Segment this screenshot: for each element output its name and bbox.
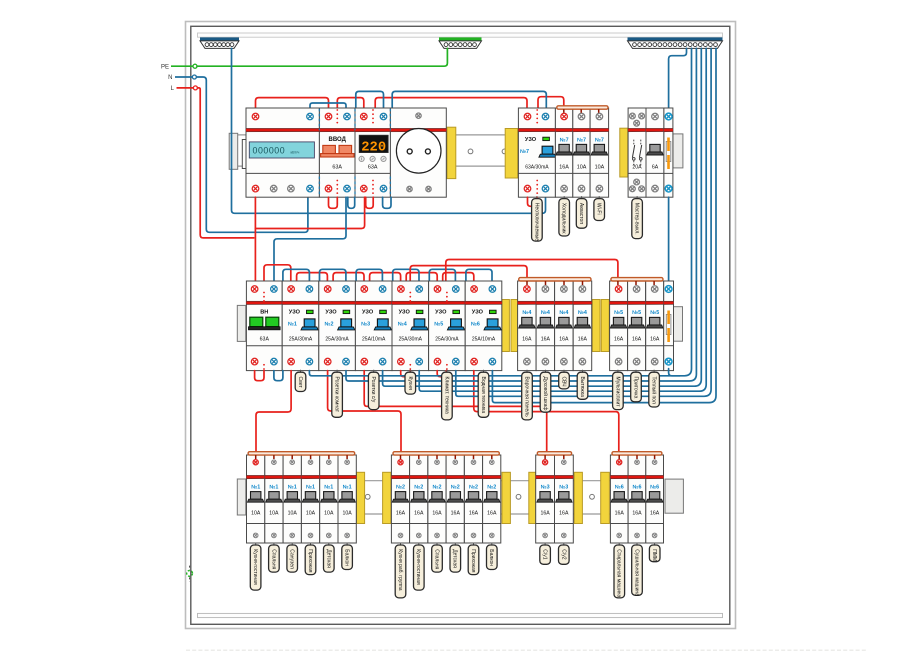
svg-text:№3: №3: [541, 484, 550, 490]
svg-text:63А: 63А: [368, 165, 378, 171]
wire main breaker N-out to switch VN N: [274, 197, 346, 286]
cable tag Балкон: [491, 543, 493, 546]
wire jumper L meter-to-main-breaker (top): [256, 98, 329, 108]
cable tag Кухня-гостиная: [418, 543, 420, 546]
svg-text:Мастер-выкл.: Мастер-выкл.: [634, 203, 640, 235]
wire loop N below monitor: [383, 197, 391, 208]
breaker QF2-6 №2 16А: [483, 455, 501, 543]
wire master switch N down through rows: [668, 197, 670, 281]
RCD U2 25А/30mА: [319, 281, 356, 371]
wire jumper L main-breaker-to-monitor (top): [337, 98, 364, 108]
wire jumper L RCD U1 to breaker N7-1 (top): [538, 97, 564, 108]
RCD U1 25А/30mА: [282, 281, 319, 371]
cable tag Балкон: [346, 543, 348, 546]
cable tag Прихожая: [473, 543, 475, 546]
wire L input down left side: [197, 88, 253, 238]
svg-text:10А: 10А: [251, 511, 261, 517]
DIN rail row 1: [229, 134, 248, 136]
svg-text:16А: 16А: [615, 511, 625, 517]
cable tag Неотключаемые: [536, 196, 538, 199]
svg-text:УЗО: УЗО: [525, 137, 537, 143]
svg-text:63А/30mА: 63А/30mА: [525, 165, 549, 171]
wire loop L below RCD5: [437, 371, 446, 377]
breaker QF4-3 N4 16A: [555, 281, 574, 371]
breaker QF4-1 N4 16A: [518, 281, 537, 371]
wire master switch N joins bundle: [669, 369, 680, 376]
DIN end stops row3: [357, 472, 365, 523]
svg-text:Водная техника: Водная техника: [480, 377, 486, 414]
RCD U3 25А/10mА: [355, 281, 392, 371]
svg-text:Санузел: Санузел: [289, 549, 295, 569]
svg-text:25А/30mА: 25А/30mА: [399, 336, 423, 342]
svg-text:УЗО: УЗО: [289, 310, 301, 316]
svg-text:Детская: Детская: [452, 549, 458, 568]
svg-text:10А: 10А: [595, 165, 605, 171]
wire N busbar drop to N bus line: [232, 48, 546, 213]
N indicator dashed columns row1: [318, 109, 320, 130]
contactor KM1 master switch 20A: [628, 108, 646, 197]
svg-text:Розетки с/у: Розетки с/у: [370, 377, 376, 403]
meter LCD display: [249, 142, 314, 158]
wire jumper chain N RCD2-RCD3: [356, 269, 382, 281]
cable tag Приточка: [635, 370, 637, 373]
svg-text:№4: №4: [522, 310, 531, 316]
svg-text:Кухня-гостиная: Кухня-гостиная: [415, 549, 421, 585]
svg-text:16А: 16А: [540, 511, 550, 517]
svg-text:№1: №1: [343, 484, 352, 490]
cable tag Прихожая: [310, 543, 312, 546]
RCD U1 63A/30mA (non-switched group): [518, 108, 555, 197]
cable tag С/у1: [544, 543, 546, 546]
DIN end stop (row1 before contactor): [620, 128, 628, 177]
svg-text:000000: 000000: [253, 145, 286, 155]
svg-text:Балкон: Балкон: [488, 549, 494, 566]
cable tag Розетки с/у: [373, 370, 375, 373]
switch VN 63A: [246, 281, 282, 371]
breaker QF3-1 №3 16А: [536, 455, 555, 543]
svg-text:25А/10mА: 25А/10mА: [362, 336, 386, 342]
wire PE input to PE busbar: [197, 48, 447, 66]
svg-text:16А: 16А: [578, 336, 588, 342]
svg-text:Духовой шкаф: Духовой шкаф: [542, 377, 549, 411]
svg-text:СВЧ: СВЧ: [561, 377, 567, 387]
cable tag Спальня: [273, 543, 275, 546]
DIN end stop (row1 before RCD group): [505, 129, 518, 179]
wire monitor L-out to meter L line: [255, 197, 364, 228]
wire feed L RCD6 to group N6: [474, 371, 619, 453]
ground symbol on enclosure: [187, 571, 193, 577]
breaker QF2-1 №2 16А: [391, 455, 409, 543]
wire feed L RCD2 to group N2: [328, 371, 401, 453]
svg-text:Кухня-гостиная: Кухня-гостиная: [252, 549, 258, 585]
svg-text:16А: 16А: [632, 336, 642, 342]
bottom cable duct: [198, 613, 723, 617]
svg-text:№1: №1: [288, 322, 297, 328]
breaker QF2-3 №2 16А: [428, 455, 446, 543]
svg-text:№2: №2: [487, 484, 496, 490]
wire loop L below monitor: [366, 197, 374, 208]
comb busbar over group №6: [612, 452, 662, 455]
svg-text:6А: 6А: [652, 165, 659, 171]
svg-text:ВВОД: ВВОД: [329, 137, 347, 143]
cable tag Аквастоп: [581, 196, 583, 199]
breaker QF6-2 №6 16А: [628, 455, 646, 543]
wire N input down left side: [196, 77, 308, 232]
wire feed L RCD3 to group N3: [364, 371, 547, 453]
wire jumper L VN to RCD1 (top): [264, 265, 291, 282]
svg-text:Климат. техника: Климат. техника: [443, 377, 449, 415]
svg-text:220: 220: [361, 141, 386, 156]
svg-text:Вытяжка: Вытяжка: [579, 377, 585, 398]
cable tag Санузел: [291, 543, 293, 546]
top mounting strip: [198, 33, 723, 37]
svg-text:N: N: [168, 75, 172, 81]
cable tag Wi-Fi: [598, 196, 600, 199]
wire loop N below main breaker: [348, 197, 355, 208]
svg-text:63А: 63А: [260, 336, 270, 342]
svg-text:№2: №2: [469, 484, 478, 490]
svg-text:№4: №4: [398, 322, 407, 328]
svg-text:№7: №7: [560, 137, 569, 143]
svg-text:Кухня раб. группа: Кухня раб. группа: [397, 549, 403, 590]
svg-text:Аквастоп: Аквастоп: [578, 203, 584, 224]
svg-text:ПММ: ПММ: [651, 549, 657, 561]
svg-text:Приточка: Приточка: [633, 377, 639, 399]
wire N RCD6 to right N busbar (bundle line 6): [492, 48, 716, 402]
switch-disconnector module (orange) row1: [664, 108, 673, 197]
svg-text:С/у1: С/у1: [542, 549, 548, 560]
breaker QF7-3 N7 10А: [590, 108, 609, 197]
svg-text:№1: №1: [251, 484, 260, 490]
cable tag Детская: [328, 543, 330, 546]
wire N feed from right busbar to master switch: [669, 48, 687, 108]
svg-text:№5: №5: [614, 310, 623, 316]
wire jumper chain L RCD3-RCD4: [370, 273, 401, 282]
breaker QF1-3 №1 10А: [283, 455, 301, 543]
wire jumper chain N RCD5-RCD6: [466, 269, 492, 281]
svg-text:№1: №1: [269, 484, 278, 490]
wire loop L below VN: [255, 371, 264, 381]
comb busbar over breakers N7: [557, 106, 608, 109]
svg-text:№2: №2: [324, 322, 333, 328]
wire N RCD1 to right N busbar (bundle line 1): [309, 48, 691, 375]
svg-text:Мультисплит: Мультисплит: [614, 377, 620, 408]
svg-text:Варочная панель: Варочная панель: [524, 377, 530, 418]
breaker QF8 6A: [646, 108, 664, 197]
svg-text:Теплый пол: Теплый пол: [651, 377, 658, 404]
svg-text:25А/30mА: 25А/30mА: [289, 336, 313, 342]
N busbar (left): [200, 37, 239, 41]
svg-text:УЗО: УЗО: [472, 310, 484, 316]
electric meter PU1: [246, 108, 319, 197]
comb busbar over breaker group N5: [611, 278, 663, 281]
svg-text:16А: 16А: [522, 336, 532, 342]
svg-text:16А: 16А: [559, 336, 569, 342]
cropped caption line at bottom edge: [186, 649, 868, 651]
switch-disconnector module (orange) row2: [664, 281, 674, 371]
svg-text:ВН: ВН: [260, 310, 268, 316]
cable tag Стиральная машина: [618, 543, 620, 546]
svg-text:10А: 10А: [269, 511, 279, 517]
wire loop L below RCD U1: [528, 197, 538, 206]
svg-text:№4: №4: [541, 310, 550, 316]
svg-text:16А: 16А: [414, 511, 424, 517]
wire jumper N main-breaker-to-monitor (top): [356, 91, 384, 108]
meter terminals: [252, 113, 259, 120]
svg-text:Wi-Fi: Wi-Fi: [596, 203, 602, 215]
svg-text:С/у2: С/у2: [560, 549, 566, 560]
svg-text:№2: №2: [451, 484, 460, 490]
DIN end stops row2: [502, 300, 510, 352]
svg-text:№5: №5: [632, 310, 641, 316]
svg-text:№6: №6: [471, 322, 480, 328]
svg-text:Неотключаемые: Неотключаемые: [533, 203, 539, 241]
DIN end stop (meter row right): [447, 127, 456, 178]
svg-text:№4: №4: [559, 310, 568, 316]
cable tag Варочная панель: [526, 370, 528, 373]
breaker QF4-4 N4 16A: [573, 281, 592, 371]
svg-text:№3: №3: [559, 484, 568, 490]
RCD U4 25А/30mА: [392, 281, 429, 371]
svg-text:10А: 10А: [288, 511, 298, 517]
cable tag Свет: [300, 370, 302, 373]
svg-text:№1: №1: [288, 484, 297, 490]
svg-text:16А: 16А: [432, 511, 442, 517]
svg-text:16А: 16А: [469, 511, 479, 517]
comb busbar over breaker group N4: [519, 278, 591, 281]
breaker QF7-1 N7 16А: [555, 108, 572, 197]
wire jumper N meter-to-main-breaker (top): [310, 103, 346, 108]
breaker QF5-3 N5 16A: [646, 281, 664, 371]
svg-text:Балкон: Балкон: [344, 549, 350, 566]
wire jumper chain L RCD1-RCD2: [297, 273, 328, 282]
cable tag Теплый пол: [653, 370, 655, 373]
voltage monitor KV1 220V 63A: [355, 108, 390, 197]
svg-text:Детская: Детская: [325, 549, 331, 568]
wire loop L below main breaker: [329, 197, 338, 208]
wire jumper chain L RCD4-RCD5: [406, 273, 437, 282]
cable tag Мультисплит: [617, 370, 619, 373]
cable tag Духовой шкаф: [545, 370, 547, 373]
comb busbar over group №2: [393, 452, 499, 455]
svg-text:УЗО: УЗО: [325, 310, 337, 316]
breaker QF2-5 №2 16А: [464, 455, 482, 543]
wire feed L RCD4 to kitchen breaker group N4: [410, 266, 527, 283]
svg-text:25А/30mА: 25А/30mА: [435, 336, 459, 342]
breaker QF7-2 N7 10А: [573, 108, 590, 197]
breaker QF6-1 №6 16А: [610, 455, 628, 543]
svg-text:10А: 10А: [577, 165, 587, 171]
svg-text:УЗО: УЗО: [362, 310, 374, 316]
svg-text:16А: 16А: [541, 336, 551, 342]
wire jumper chain L RCD2-RCD3: [333, 273, 364, 282]
svg-text:25А/30mА: 25А/30mА: [325, 336, 349, 342]
cable tag Холодильник: [563, 196, 565, 199]
breaker QF2-4 №2 16А: [446, 455, 464, 543]
PE busbar (green): [439, 37, 482, 41]
svg-text:№6: №6: [650, 484, 659, 490]
DIN rail row 2: [238, 307, 249, 309]
svg-text:20А: 20А: [632, 165, 642, 171]
wire jumper chain N RCD1-RCD2: [320, 269, 346, 281]
wire feed L RCD1 to group N1: [256, 371, 291, 453]
cable tag С/у2: [563, 543, 565, 546]
breaker QF4-2 N4 16A: [536, 281, 555, 371]
svg-text:УЗО: УЗО: [399, 310, 411, 316]
breaker QF1-5 №1 10А: [320, 455, 338, 543]
N busbar (right): [628, 37, 723, 41]
comb busbar over group №3: [537, 452, 571, 455]
cable tag Кухня раб. группа: [400, 543, 402, 546]
cable tag Спальня: [436, 543, 438, 546]
cable tag ПММ: [654, 543, 656, 546]
svg-text:Кухня: Кухня: [407, 377, 413, 391]
svg-text:10А: 10А: [324, 511, 334, 517]
wire jumper chain N VN-RCD1: [283, 269, 310, 281]
svg-text:16А: 16А: [559, 165, 569, 171]
wire jumper chain L RCD5-RCD6: [443, 273, 474, 282]
svg-text:№4: №4: [578, 310, 587, 316]
svg-text:Спальня: Спальня: [434, 549, 440, 569]
breaker QF5-2 N5 16A: [628, 281, 646, 371]
comb busbar over group №1: [248, 452, 355, 455]
svg-text:Прихожая: Прихожая: [470, 549, 476, 572]
svg-text:10А: 10А: [342, 511, 352, 517]
svg-text:№5: №5: [650, 310, 659, 316]
wire feed L RCD5 to breaker group N5: [446, 260, 618, 284]
svg-text:16А: 16А: [614, 336, 624, 342]
svg-text:PE: PE: [161, 64, 169, 70]
breaker QF1-6 №1 10А: [338, 455, 356, 543]
wire meter L-out down to switch VN: [254, 197, 256, 286]
wire jumper N monitor to RCD U1 (top): [392, 91, 546, 108]
svg-text:кВт/ч: кВт/ч: [291, 150, 300, 154]
svg-text:Холодильник: Холодильник: [561, 203, 567, 234]
svg-text:16А: 16А: [632, 511, 642, 517]
svg-text:№2: №2: [414, 484, 423, 490]
main breaker QF1 VVOD 63A: [319, 108, 355, 197]
svg-text:Розетки комнат: Розетки комнат: [334, 377, 340, 413]
breaker QF2-2 №2 16А: [410, 455, 428, 543]
cable tag Сушильная машина: [636, 543, 638, 546]
svg-text:№6: №6: [632, 484, 641, 490]
svg-text:Сушильная машина: Сушильная машина: [633, 549, 639, 596]
svg-text:№1: №1: [306, 484, 315, 490]
svg-text:№7: №7: [577, 137, 586, 143]
svg-text:№5: №5: [434, 322, 443, 328]
cable tag Розетки комнат: [336, 370, 338, 373]
wire jumper chain N RCD3-RCD4: [393, 269, 419, 281]
breaker QF5-1 N5 16A: [610, 281, 628, 371]
cable tag Кухня: [409, 370, 411, 373]
svg-text:Спальня: Спальня: [270, 549, 276, 569]
svg-text:L: L: [171, 86, 175, 92]
breaker QF1-2 №1 10А: [265, 455, 283, 543]
wire jumper chain N RCD4-RCD5: [429, 269, 455, 281]
cable tag СВЧ: [563, 370, 565, 373]
svg-text:№7: №7: [520, 149, 529, 155]
svg-text:№3: №3: [361, 322, 370, 328]
svg-text:№7: №7: [595, 137, 604, 143]
svg-text:16А: 16А: [559, 511, 569, 517]
svg-text:16А: 16А: [396, 511, 406, 517]
breaker QF3-2 №3 16А: [555, 455, 574, 543]
wire N RCD3 to right N busbar (bundle line 3): [383, 48, 702, 386]
svg-text:25А/10mА: 25А/10mА: [472, 336, 496, 342]
svg-text:Свет: Свет: [297, 377, 303, 389]
socket XS1 on DIN rail: [390, 108, 446, 197]
panel enclosure inner frame: [191, 26, 730, 624]
breaker QF1-4 №1 10А: [301, 455, 319, 543]
wire loop L below RCD4: [401, 371, 411, 377]
svg-text:16А: 16А: [650, 336, 660, 342]
wire N RCD2 to right N busbar (bundle line 2): [346, 48, 696, 381]
RCD U6 25А/10mА: [465, 281, 502, 371]
RCD U5 25А/30mА: [429, 281, 466, 371]
svg-text:№2: №2: [432, 484, 441, 490]
svg-text:16А: 16А: [451, 511, 461, 517]
svg-text:10А: 10А: [306, 511, 316, 517]
wire N RCD5 to right N busbar (bundle line 5): [456, 48, 711, 396]
svg-text:№2: №2: [396, 484, 405, 490]
cable tag Климат. техника: [446, 370, 448, 373]
wire jumper L monitor to RCD U1 (top): [375, 98, 527, 108]
DIN rail row 3: [238, 480, 249, 482]
wire loop N below VN: [274, 371, 283, 381]
svg-text:№1: №1: [324, 484, 333, 490]
cable tag Водная техника: [483, 370, 485, 373]
cable tag Вытяжка: [582, 370, 584, 373]
panel enclosure outer frame: [186, 22, 736, 629]
svg-text:16А: 16А: [650, 511, 660, 517]
cable tag Кухня-гостиная: [255, 543, 257, 546]
cable tag Детская: [454, 543, 456, 546]
breaker QF1-1 №1 10А: [247, 455, 265, 543]
svg-text:№6: №6: [615, 484, 624, 490]
cable tag Мастер-выкл.: [636, 196, 638, 199]
svg-text:16А: 16А: [487, 511, 497, 517]
wire N RCD4 to right N busbar (bundle line 4): [419, 48, 706, 391]
svg-text:Прихожая: Прихожая: [307, 549, 313, 572]
breaker QF6-3 №6 16А: [646, 455, 664, 543]
svg-text:УЗО: УЗО: [435, 310, 447, 316]
svg-text:Стиральная машина: Стиральная машина: [616, 549, 622, 597]
svg-text:63А: 63А: [332, 165, 342, 171]
